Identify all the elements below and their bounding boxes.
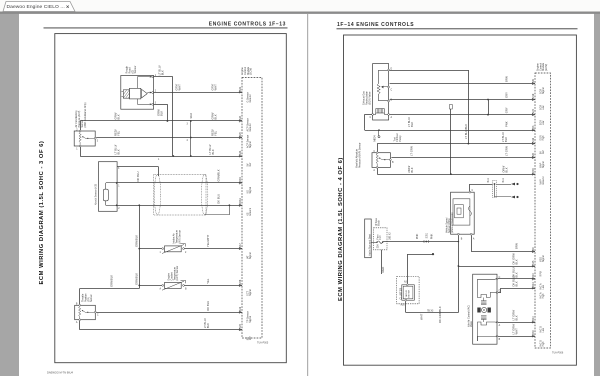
svg-text:Pressure (MAP) Sensor: Pressure (MAP) Sensor <box>358 142 361 168</box>
ECM pin M8 <box>532 156 534 158</box>
shield ellipse left <box>154 174 160 215</box>
svg-text:WHT: WHT <box>178 84 182 91</box>
svg-text:A16: A16 <box>401 304 406 307</box>
ECM pin M3 <box>532 129 534 131</box>
svg-text:BLK: BLK <box>504 167 508 172</box>
IAC coil B hatch <box>481 316 487 320</box>
cluster dashed box <box>397 277 419 304</box>
svg-text:Signal: Signal <box>249 316 252 323</box>
svg-text:BLK: BLK <box>410 167 414 172</box>
G sensor internal wires <box>137 77 139 89</box>
wire DK BLU TP signal to ECM A46 <box>96 312 242 314</box>
svg-text:BLK: BLK <box>502 178 505 183</box>
svg-text:(EGR) Valve: (EGR) Valve <box>368 91 371 105</box>
svg-text:M: M <box>483 308 485 312</box>
svg-text:BLK: BLK <box>206 323 210 328</box>
wire PNK feed row to ECM M3 <box>365 130 535 132</box>
svg-text:DAEWOO M-TN 96U4: DAEWOO M-TN 96U4 <box>47 371 73 375</box>
wire WHT / DK GRN-BLK tacho to K35 <box>405 301 407 312</box>
wire BLK VSS C to ground terminals <box>469 184 471 191</box>
svg-text:Signal: Signal <box>249 252 252 259</box>
ACP potentiometer <box>79 132 81 145</box>
IAC motor <box>477 308 480 313</box>
svg-text:GRN/BLK: GRN/BLK <box>217 169 221 181</box>
wire LT BLU/BLK TP 5V to ECM 4M2 <box>79 321 81 330</box>
svg-text:Ground: Ground <box>249 94 252 103</box>
svg-text:DK BLU: DK BLU <box>136 172 140 182</box>
VSS box <box>451 192 475 234</box>
svg-text:BLK: BLK <box>161 70 165 75</box>
svg-text:M19: M19 <box>532 93 535 98</box>
shield ellipse right <box>201 174 207 215</box>
ECM pin A34 <box>239 120 241 122</box>
tab <box>3 2 75 12</box>
svg-text:M22: M22 <box>532 108 535 113</box>
svg-text:High: High <box>542 341 545 347</box>
ACP pins <box>79 130 81 132</box>
svg-text:LT GRN: LT GRN <box>504 146 508 156</box>
svg-text:BLK: BLK <box>160 111 164 116</box>
MAP sensor box <box>372 153 390 168</box>
svg-text:Signal: Signal <box>542 161 545 168</box>
wire bus to IAT pin1 <box>139 248 161 250</box>
svg-text:LT GRN: LT GRN <box>410 146 414 156</box>
svg-text:WHT: WHT <box>420 313 424 320</box>
svg-text:Block: Block <box>379 219 381 225</box>
ECM pin M49 <box>239 182 241 184</box>
svg-text:Signal: Signal <box>249 289 252 296</box>
wire MAP C riser to 5V row <box>377 144 379 152</box>
svg-text:Sensor: Sensor <box>134 65 137 73</box>
svg-text:A33: A33 <box>239 150 242 155</box>
EGR potentiometer <box>378 70 380 84</box>
VSS inner boxes <box>453 199 470 225</box>
wire LT GRN MAP B to ECM M8 <box>391 157 535 159</box>
svg-text:BLK: BLK <box>487 178 490 183</box>
svg-text:TACHO: TACHO <box>405 290 408 298</box>
wire KS shield drain top <box>117 166 159 168</box>
IAT thermistor R <box>165 246 182 252</box>
svg-text:LT BLU/BLK: LT BLU/BLK <box>464 124 468 139</box>
KS pins <box>116 182 118 184</box>
svg-text:Signal: Signal <box>249 186 252 193</box>
EGR pins <box>388 69 390 71</box>
svg-text:ENGINE CONTROLS 1F–13: ENGINE CONTROLS 1F–13 <box>209 22 286 28</box>
svg-text:(Manual Transaxle): (Manual Transaxle) <box>451 212 454 233</box>
svg-text:4M2: 4M2 <box>239 323 242 328</box>
svg-text:Low: Low <box>542 121 545 126</box>
wire GRY/WHT G pin2 to ECM A21 <box>154 92 242 94</box>
svg-text:BLK: BLK <box>515 315 519 320</box>
wire bus to ECT pin <box>139 285 161 287</box>
svg-text:Fill Fuel: Fill Fuel <box>397 133 399 142</box>
svg-text:High: High <box>542 135 545 141</box>
wire LT BLU/BLK G pin1 to 5V ref row <box>154 76 173 78</box>
IAC outer box <box>473 274 497 344</box>
page1 header rule <box>44 27 288 29</box>
wire GRY EGR A to ECM M22 <box>390 114 535 116</box>
splice S351 <box>425 241 427 243</box>
wire DK BLU KS signal to ECM M49 <box>117 182 242 184</box>
svg-text:MB34: MB34 <box>375 135 377 142</box>
ECM pin M22 <box>532 114 534 116</box>
sensor ground drop EGR/M22 to MAP ground row <box>450 105 453 110</box>
svg-text:A34: A34 <box>239 115 242 120</box>
svg-text:M48: M48 <box>239 279 242 284</box>
svg-text:M30: M30 <box>532 330 535 335</box>
svg-text:Low: Low <box>542 105 545 110</box>
fuse block dashed box <box>374 228 388 250</box>
ECM pin A20 <box>239 136 241 138</box>
svg-text:PNK: PNK <box>415 233 419 239</box>
ECM pin A46 <box>239 311 241 313</box>
svg-text:1F–14 ENGINE CONTROLS: 1F–14 ENGINE CONTROLS <box>337 22 414 28</box>
svg-text:(ECT) Sensor: (ECT) Sensor <box>176 266 179 281</box>
wire GRY EGR B to ECM M19 <box>390 99 535 101</box>
ECM pin M10 <box>532 278 534 280</box>
tacho pin A3 to terminal <box>406 284 408 286</box>
svg-text:Test: Test <box>394 137 397 142</box>
svg-text:GRN/BLK: GRN/BLK <box>109 275 113 287</box>
svg-text:DK BLU: DK BLU <box>217 194 221 204</box>
TP sensor box <box>75 305 96 319</box>
svg-text:A21: A21 <box>239 86 242 91</box>
wire YEL ECT signal to ECM M48 <box>185 285 243 287</box>
EGR wiper <box>381 86 387 88</box>
wire LT BLU/BLK 5V row MAP to ECM M16 <box>377 143 535 145</box>
wire LT BLU/BLK ACP pin1 to ECM A33 5V <box>80 147 82 156</box>
ECM U2 dashed outline (right page) <box>535 73 551 348</box>
svg-text:M49: M49 <box>239 177 242 182</box>
page2 header rule <box>337 28 578 30</box>
svg-text:YEL/WHT: YEL/WHT <box>206 234 210 247</box>
ACP sensor box <box>74 131 95 146</box>
svg-text:S351: S351 <box>427 232 429 238</box>
svg-text:YEL: YEL <box>116 130 120 136</box>
ECM pin M19 <box>532 98 534 100</box>
IAC coil A hatch <box>481 301 487 305</box>
ECM pin M48 <box>532 173 534 175</box>
svg-text:Hot in Run and Start: Hot in Run and Start <box>368 234 371 256</box>
IAC coil B sub-box <box>478 322 496 341</box>
ECM pin A33 <box>239 155 241 157</box>
RED feed stub <box>381 250 383 274</box>
ECM pin K35 <box>532 265 534 267</box>
tacho pin A16 <box>405 299 407 301</box>
svg-text:2M4A: 2M4A <box>239 198 242 205</box>
wire hot box to fuse <box>371 242 377 244</box>
ECM pin A9 <box>532 250 534 252</box>
ECM pin A21 <box>239 91 241 93</box>
ECM pin M14 <box>532 321 534 323</box>
wire KS ground to ECM 2M4A <box>117 205 242 207</box>
svg-text:Sensor: Sensor <box>90 294 93 302</box>
svg-text:Ground: Ground <box>542 176 545 185</box>
wire GRN/BLK bus to TP sensor <box>80 288 140 290</box>
svg-text:RPM: RPM <box>540 271 543 276</box>
svg-text:GRN/BLK: GRN/BLK <box>135 235 139 247</box>
svg-text:Pump: Pump <box>400 135 402 142</box>
svg-text:16B X3: 16B X3 <box>389 232 391 240</box>
svg-text:TUA-P006: TUA-P006 <box>552 352 564 355</box>
svg-text:IP Fuse: IP Fuse <box>376 217 378 226</box>
svg-text:RED: RED <box>381 267 385 273</box>
svg-text:Low: Low <box>542 328 545 333</box>
svg-text:PNK: PNK <box>430 233 434 239</box>
ECT thermistor R <box>165 283 182 289</box>
svg-text:Signal: Signal <box>542 255 545 262</box>
svg-text:BLK: BLK <box>214 114 218 119</box>
svg-text:(IAT) Sensor: (IAT) Sensor <box>178 230 181 244</box>
svg-text:Daewoo Engine CIELO ...: Daewoo Engine CIELO ... <box>7 4 65 10</box>
ECM pin M6 <box>532 82 534 84</box>
wire DK BLU/BLK IAC D to ECM M13 <box>498 292 501 294</box>
page split line <box>307 14 308 376</box>
wire BRN VSS A to ECM A9 <box>471 235 473 251</box>
IAC pins <box>496 278 498 280</box>
svg-text:Fuse: Fuse <box>377 234 379 240</box>
svg-text:GRN/BLK: GRN/BLK <box>135 273 139 285</box>
svg-text:BLK: BLK <box>116 114 120 119</box>
tab bar <box>0 0 600 12</box>
svg-text:30A: 30A <box>376 244 379 249</box>
svg-text:YEL: YEL <box>206 278 210 284</box>
ECM pin 4M2 <box>239 329 241 331</box>
svg-text:BLK: BLK <box>504 137 508 142</box>
shielded cable dashed box <box>154 174 206 215</box>
wire DK GRN/BLK to ECM K35 <box>458 266 535 268</box>
hot in run and start box <box>365 219 372 258</box>
svg-text:Ground: Ground <box>249 207 252 216</box>
wire RED/YEL ACP pin3 to ECM A20 <box>96 137 242 139</box>
wire LT GRN/WHT IAC B to ECM M30 <box>498 336 535 338</box>
svg-text:DK BLU: DK BLU <box>206 301 210 311</box>
svg-text:(ECM): (ECM) <box>250 68 253 75</box>
G sensor element <box>123 90 129 98</box>
EGR solenoid feed jog <box>364 114 366 128</box>
TP potentiometer <box>79 307 81 319</box>
svg-text:S112: S112 <box>190 112 193 118</box>
svg-text:WHT: WHT <box>515 328 519 335</box>
wire EGR D to LT BLU/BLK vertical <box>390 70 469 72</box>
svg-text:M48: M48 <box>532 168 535 173</box>
svg-text:GRY: GRY <box>504 107 508 113</box>
IAC coil A sub-box <box>478 279 496 297</box>
svg-text:BLK: BLK <box>211 149 215 154</box>
svg-text:M16: M16 <box>532 137 535 142</box>
KS piezo element <box>103 189 108 201</box>
EGR valve box <box>373 64 389 120</box>
G sensor pins 1 2 3 <box>152 76 154 78</box>
svg-text:WHT: WHT <box>214 84 218 91</box>
ECM pin M16 <box>532 143 534 145</box>
svg-text:M14: M14 <box>532 316 535 321</box>
wire LT BLU/BLK vertical joins M16 5V row <box>468 70 470 144</box>
svg-text:Ground: Ground <box>249 123 252 132</box>
svg-text:DK GRN/BLK: DK GRN/BLK <box>438 306 442 323</box>
ECM pin M48 <box>239 284 241 286</box>
svg-text:PNK: PNK <box>504 121 508 127</box>
svg-text:Ref: Ref <box>249 162 252 166</box>
svg-text:A20: A20 <box>239 132 242 137</box>
svg-text:7B X3: 7B X3 <box>427 310 434 312</box>
bridge GRY M19 to M22 row <box>487 99 489 101</box>
svg-text:A46: A46 <box>239 306 242 311</box>
svg-text:YEL: YEL <box>214 130 218 136</box>
svg-text:Ref: Ref <box>542 150 545 154</box>
svg-text:Signal: Signal <box>249 141 252 148</box>
splice S112 <box>190 121 192 156</box>
svg-text:BLK: BLK <box>515 259 519 264</box>
svg-text:GRY: GRY <box>504 92 508 98</box>
ECM pin M13 <box>532 287 534 289</box>
svg-text:A47: A47 <box>239 243 242 248</box>
wire PNK fuse to VSS-B drop <box>383 241 459 243</box>
svg-text:K35: K35 <box>532 260 535 265</box>
fuel pump test stub MB34 <box>378 130 380 136</box>
svg-text:BLK: BLK <box>410 122 414 127</box>
rough road G sensor box <box>121 76 154 110</box>
ground terminal arrows <box>511 183 515 186</box>
wire GRN/BLK G pin3 to ACP ground row <box>154 104 168 106</box>
wire LT GRN/BLK IAC A to ECM M14 <box>498 322 535 324</box>
svg-text:M13: M13 <box>532 282 535 287</box>
svg-text:BRN: BRN <box>515 243 519 249</box>
shield drain bottom <box>205 214 230 216</box>
svg-text:Low: Low <box>542 285 545 290</box>
TP pins <box>79 304 81 306</box>
MAP potentiometer <box>376 154 378 167</box>
ECM U1 dashed outline (left page) <box>242 78 262 339</box>
page2 frame <box>344 35 577 365</box>
svg-text:ECM WIRING DIAGRAM (1.5L SOHC: ECM WIRING DIAGRAM (1.5L SOHC - 3 OF 6) <box>39 141 45 285</box>
svg-text:ECM WIRING DIAGRAM (1.5L SOHC: ECM WIRING DIAGRAM (1.5L SOHC - 4 OF 6) <box>338 157 344 301</box>
svg-text:TUA-P005: TUA-P005 <box>257 342 269 345</box>
svg-text:(ECM): (ECM) <box>545 64 548 71</box>
VSS pins <box>469 191 471 193</box>
MAP pins <box>376 152 378 154</box>
svg-text:METER: METER <box>409 289 411 297</box>
svg-text:M10: M10 <box>532 273 535 278</box>
knock sensor KS box <box>99 162 118 212</box>
wire ORN/BLK MAP A to ECM M48 <box>377 168 379 174</box>
svg-text:BLK: BLK <box>515 281 519 286</box>
svg-text:Signal: Signal <box>542 87 545 94</box>
GRN/BLK sensor ground bus <box>138 204 140 206</box>
ECM pin 2M4A <box>239 204 241 206</box>
svg-text:BRN: BRN <box>504 76 508 82</box>
wire DK BLU/BLK IAC C to ECM M10 <box>498 278 535 280</box>
G sensor pin arrows <box>150 76 152 78</box>
tacho meter box <box>402 285 415 300</box>
ECM pin A47 <box>239 248 241 250</box>
svg-text:Ref: Ref <box>249 336 252 340</box>
page1 frame <box>55 34 286 363</box>
wire BRN EGR C to ECM M6 <box>390 83 535 85</box>
EGR solenoid coil <box>376 109 385 113</box>
toolbar shadow band <box>0 12 600 14</box>
svg-text:High: High <box>542 293 545 299</box>
ECM pin M30 <box>532 335 534 337</box>
VSS B drop joins tacho wire <box>458 235 460 312</box>
svg-text:(With Conditioner Only): (With Conditioner Only) <box>84 102 87 127</box>
wire GRN/BLK ACP pin2 to ECM A34 <box>80 121 82 130</box>
svg-text:Knock Sensor (KS): Knock Sensor (KS) <box>95 184 98 205</box>
wire YEL/WHT IAT signal to ECM A47 <box>185 248 243 250</box>
svg-text:BLK: BLK <box>116 149 120 154</box>
